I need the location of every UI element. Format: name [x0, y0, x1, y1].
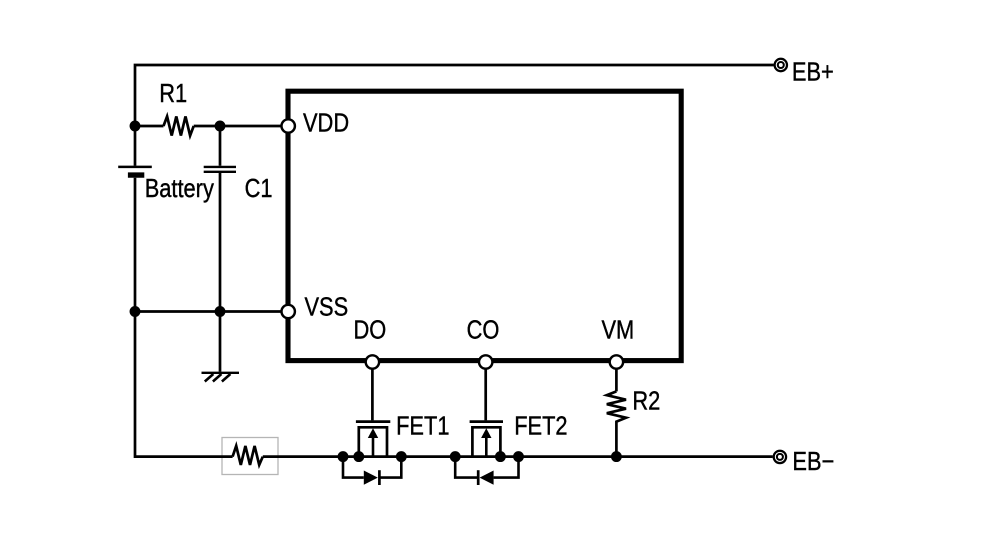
svg-text:EB−: EB−	[792, 447, 834, 476]
svg-text:DO: DO	[354, 316, 387, 345]
svg-text:R2: R2	[632, 387, 660, 416]
svg-text:FET2: FET2	[514, 412, 567, 441]
svg-text:Battery: Battery	[145, 174, 214, 203]
svg-text:CO: CO	[467, 316, 500, 345]
svg-text:FET1: FET1	[396, 412, 449, 441]
svg-text:VDD: VDD	[303, 109, 349, 138]
svg-text:EB+: EB+	[792, 58, 834, 87]
svg-text:VSS: VSS	[305, 293, 349, 322]
svg-text:C1: C1	[245, 174, 273, 203]
svg-text:R1: R1	[159, 79, 187, 108]
svg-text:VM: VM	[602, 316, 635, 345]
